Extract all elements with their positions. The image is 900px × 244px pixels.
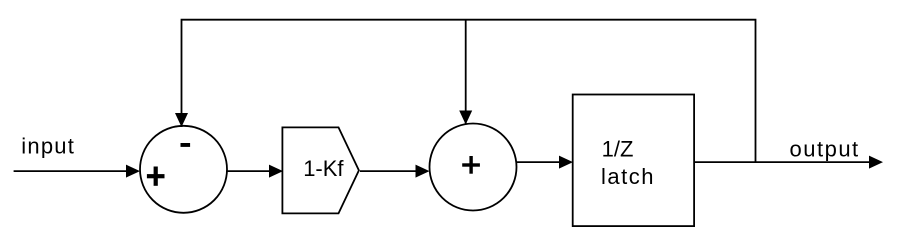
svg-text:output: output (790, 137, 860, 162)
svg-text:1/Z: 1/Z (602, 137, 634, 162)
svg-text:input: input (21, 134, 75, 159)
svg-text:1-Kf: 1-Kf (303, 156, 344, 181)
svg-text:latch: latch (601, 164, 655, 189)
